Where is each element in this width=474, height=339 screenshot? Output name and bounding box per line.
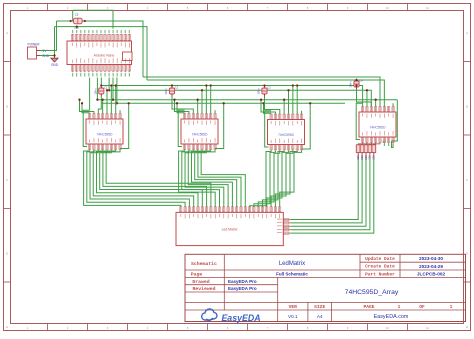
ground GND <box>51 56 59 68</box>
capacitor C5 10u <box>71 13 86 30</box>
LED matrix U6 <box>176 207 291 246</box>
junction <box>76 25 78 27</box>
resistor R5 220 <box>372 144 380 160</box>
junction <box>100 84 102 86</box>
wire pin8 stub <box>301 111 303 114</box>
junction <box>176 102 178 104</box>
wire nest 3 <box>98 97 101 114</box>
junction <box>106 89 108 91</box>
wire nest 2 <box>261 100 275 114</box>
resistor R4 220 <box>368 144 376 160</box>
wire C5 left up <box>72 10 74 21</box>
junction <box>173 99 175 101</box>
junction <box>355 79 357 81</box>
junction <box>53 54 55 56</box>
junction <box>102 99 104 101</box>
capacitor C2 100n <box>164 86 179 97</box>
junction <box>116 102 118 104</box>
wire nest 1 <box>177 103 185 113</box>
wire pin8 stub <box>214 110 216 113</box>
wire VIN loop <box>73 10 113 29</box>
svg-text:74HC595D: 74HC595D <box>97 132 113 136</box>
svg-text:EasyEDA Pro: EasyEDA Pro <box>228 279 257 284</box>
svg-text:100n: 100n <box>257 88 261 95</box>
svg-text:Page: Page <box>191 272 203 278</box>
wire pin4 drop <box>283 100 285 114</box>
junction <box>260 99 262 101</box>
capacitor C4 100n <box>349 79 364 90</box>
IC U3 74HC595D <box>268 114 305 151</box>
wire arduino drop 6 <box>116 78 118 104</box>
wire nest 3 <box>172 97 193 114</box>
junction <box>197 99 199 101</box>
resistor R1 220 <box>356 144 363 160</box>
svg-text:A4: A4 <box>317 314 323 319</box>
svg-text:2023-04-30: 2023-04-30 <box>419 256 443 261</box>
resistor R3 220 <box>364 144 372 160</box>
wire nest 1 <box>264 103 272 113</box>
junction <box>205 84 207 86</box>
svg-text:Reviewed: Reviewed <box>192 286 215 292</box>
svg-text:PAGE: PAGE <box>363 304 374 310</box>
svg-text:1: 1 <box>450 304 453 310</box>
svg-text:1: 1 <box>398 304 401 310</box>
wire bundle U3 to LED matrix <box>250 151 302 207</box>
IC U2 74HC595D <box>181 113 218 150</box>
capacitor C1 100n <box>94 86 109 97</box>
svg-text:Arduino Nano: Arduino Nano <box>94 53 115 57</box>
svg-text:V0.1: V0.1 <box>288 314 298 319</box>
junction <box>292 84 294 86</box>
wire pin6 drop <box>292 86 294 114</box>
wire GND stem <box>54 27 56 56</box>
svg-text:Create Date: Create Date <box>365 264 395 270</box>
wire pin4 drop <box>102 100 104 114</box>
wire C5 to right rail <box>85 21 143 77</box>
junction <box>223 102 225 104</box>
wire nest 2 <box>175 100 189 114</box>
wire nest 3 <box>357 90 372 107</box>
wire right loop <box>120 103 129 148</box>
wire 5V rail top <box>57 20 71 22</box>
wire bundle U2 to LED matrix <box>179 151 246 207</box>
wire pin7 drop <box>296 86 298 114</box>
junction <box>171 84 173 86</box>
wire C4 top <box>356 80 358 81</box>
wire pin6 drop <box>110 86 112 114</box>
wire pin4 drop <box>197 100 199 114</box>
junction <box>108 89 110 91</box>
svg-text:74HC595D: 74HC595D <box>278 133 294 137</box>
wire pin to GND rail <box>76 27 78 29</box>
junction <box>201 89 203 91</box>
wire left wrap <box>178 110 184 146</box>
wire right loop <box>215 103 224 148</box>
svg-text:2023-04-29: 2023-04-29 <box>419 264 443 269</box>
junction <box>110 84 112 86</box>
wire IC4 pin3 feed <box>375 100 377 107</box>
resistor R2 220 <box>360 144 367 160</box>
connector P1 POWER <box>27 43 49 60</box>
junction <box>112 99 114 101</box>
wire left wrap <box>83 110 89 146</box>
svg-text:D: D <box>6 253 8 256</box>
wire 5V rail R1 <box>143 77 380 106</box>
wire pin7 drop <box>115 86 117 114</box>
junction <box>263 84 265 86</box>
wire pin5 drop <box>106 90 108 113</box>
wire arduino drop 1 <box>89 78 91 111</box>
junction <box>375 99 377 101</box>
wire IC4 right loop <box>392 100 398 141</box>
capacitor C3 100n <box>257 86 272 97</box>
junction <box>96 99 98 101</box>
svg-text:Schematic: Schematic <box>191 261 217 267</box>
svg-text:EasyEDA.com: EasyEDA.com <box>374 314 409 320</box>
wire right loop <box>302 103 311 149</box>
junction <box>81 102 83 104</box>
svg-text:SIZE: SIZE <box>314 304 325 310</box>
wire arduino drop 4 <box>108 78 110 91</box>
svg-text:OF: OF <box>419 304 425 310</box>
wire IC4 pin1 feed <box>366 90 368 106</box>
svg-text:74HC595D_Array: 74HC595D_Array <box>345 289 399 296</box>
wire pin5 drop <box>288 90 290 113</box>
junction <box>309 102 311 104</box>
svg-text:D: D <box>466 253 468 256</box>
wire pin6 drop <box>205 86 207 114</box>
junction <box>78 99 80 101</box>
mcu U5 Arduino Nano <box>67 30 132 77</box>
wire left wrap <box>265 111 271 147</box>
junction <box>296 84 298 86</box>
junction <box>69 20 71 22</box>
svg-text:EasyEDA Pro: EasyEDA Pro <box>228 286 257 291</box>
junction <box>128 102 130 104</box>
wire IC4 pin8 loop <box>392 141 394 148</box>
wire GND rail R2 <box>147 80 384 106</box>
svg-text:JLCPCB-002: JLCPCB-002 <box>417 272 446 277</box>
junction <box>287 89 289 91</box>
junction <box>84 20 86 22</box>
svg-text:Full Schematic: Full Schematic <box>276 272 308 277</box>
wire nest 3 <box>265 97 280 114</box>
junction <box>283 99 285 101</box>
svg-text:C: C <box>466 179 468 182</box>
wire pin5 drop <box>201 90 203 113</box>
svg-text:74HC595D: 74HC595D <box>370 125 386 129</box>
wire pin7 drop <box>210 86 212 114</box>
junction <box>262 102 264 104</box>
wire bundle resistors to LED matrix <box>291 159 374 234</box>
svg-text:74HC595D: 74HC595D <box>192 132 208 136</box>
svg-text:GND: GND <box>51 63 59 67</box>
wire bundle U1 to LED matrix <box>84 151 211 207</box>
svg-text:LedMatrix: LedMatrix <box>279 261 305 267</box>
junction <box>115 84 117 86</box>
svg-text:C: C <box>6 179 8 182</box>
junction <box>210 84 212 86</box>
wire GND rail top <box>55 27 148 80</box>
wire 5V to POWER <box>40 21 57 51</box>
wire bus LA <box>97 99 397 101</box>
svg-text:VER: VER <box>289 304 298 310</box>
junction <box>366 89 368 91</box>
IC U4 74HC595D <box>359 106 396 143</box>
wire pin8 stub <box>119 110 121 113</box>
svg-text:100n: 100n <box>349 81 353 88</box>
svg-text:Update Date: Update Date <box>365 256 395 262</box>
wire arduino drop 2 <box>96 78 98 100</box>
wire nest 1 <box>82 103 90 113</box>
wire bus L3 <box>101 102 345 104</box>
IC U1 74HC595D <box>86 113 123 150</box>
wire arduino drop 5 <box>112 78 114 100</box>
wire arduino drop 3 <box>100 78 102 89</box>
wire left wrap <box>356 103 362 139</box>
title block <box>185 254 466 321</box>
svg-text:Part Number: Part Number <box>365 272 395 278</box>
svg-text:POWER: POWER <box>27 43 40 47</box>
wire bus L2 <box>109 90 371 106</box>
net label QH <box>383 144 385 147</box>
wire bus L1 <box>101 86 362 107</box>
EasyEDA logo <box>202 309 261 323</box>
svg-text:EasyEDA: EasyEDA <box>221 313 260 323</box>
wire nest 2 <box>80 100 94 114</box>
svg-text:Drawed: Drawed <box>192 279 209 285</box>
wire GND to POWER <box>40 55 55 57</box>
svg-text:C5: C5 <box>75 13 79 17</box>
svg-text:100n: 100n <box>164 88 168 95</box>
svg-text:Led Matrix: Led Matrix <box>222 227 238 231</box>
wire pin8 stub <box>392 103 394 106</box>
svg-text:100n: 100n <box>94 88 98 95</box>
junction <box>355 84 357 86</box>
svg-text:QH: QH <box>382 140 386 144</box>
